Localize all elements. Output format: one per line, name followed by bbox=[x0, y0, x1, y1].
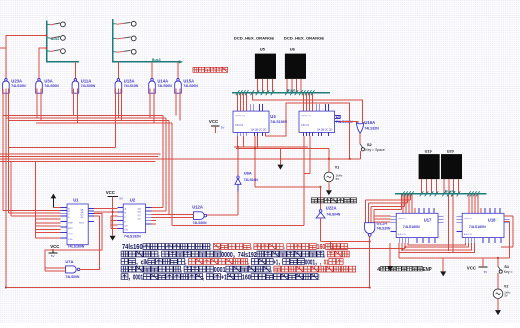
svg-text:U14A: U14A bbox=[157, 78, 168, 83]
wire ENP feed from U22A line to cascade row bbox=[331, 242, 406, 249]
svg-text:RCO: RCO bbox=[79, 222, 84, 224]
svg-text:74LS10N: 74LS10N bbox=[11, 84, 26, 88]
wire U16A output to S2 bbox=[359, 134, 361, 144]
svg-text:VCC: VCC bbox=[50, 244, 60, 249]
svg-text:74LS192N: 74LS192N bbox=[270, 120, 287, 124]
NAND gate U13A (74LS10N) bbox=[115, 78, 139, 93]
svg-text:U11A: U11A bbox=[81, 78, 91, 83]
svg-text:¬¬¬¬ ¬: ¬¬¬¬ ¬ bbox=[464, 217, 472, 220]
wire U12A input stubs bbox=[188, 214, 194, 217]
wire U17 left pin rows bbox=[374, 216, 390, 222]
NAND gate U12A (74LS00N) bbox=[192, 204, 207, 225]
svg-text:U3A: U3A bbox=[44, 78, 52, 83]
wire clock line to V1/S2 bbox=[0, 158, 361, 160]
wire U11A inputs bbox=[73, 93, 77, 123]
svg-text:¬¬¬¬ ¬¬: ¬¬¬¬ ¬¬ bbox=[235, 114, 245, 117]
wire U13A inputs bbox=[115, 93, 121, 120]
switch bank J1 bus bar bbox=[47, 20, 79, 62]
svg-text:5V: 5V bbox=[484, 270, 488, 274]
NAND gate U21A (74LS20N) bbox=[365, 220, 391, 236]
svg-text:74LS160N: 74LS160N bbox=[68, 245, 85, 249]
svg-text:74LS00N: 74LS00N bbox=[44, 84, 59, 88]
bus Bus1 bbox=[232, 88, 330, 95]
svg-text:A B C D: A B C D bbox=[464, 233, 472, 236]
svg-text:74LS04N: 74LS04N bbox=[244, 178, 259, 182]
svg-text:Bus3: Bus3 bbox=[152, 58, 161, 62]
svg-text:U1: U1 bbox=[73, 198, 79, 203]
ground below V1 bbox=[326, 182, 332, 196]
counter U1 (74LS160N) bbox=[60, 198, 93, 249]
svg-text:U2: U2 bbox=[130, 198, 136, 203]
svg-text:，: ， bbox=[248, 259, 251, 266]
svg-text:U6: U6 bbox=[290, 47, 296, 52]
wire between-chip verticals bbox=[449, 195, 453, 253]
wire U13A output to bus J2 bbox=[117, 62, 119, 78]
wire U23A output to bus J1 bbox=[6, 36, 47, 79]
svg-text:74LS00N: 74LS00N bbox=[193, 221, 208, 225]
NAND gate U11A (74LS00N) bbox=[72, 78, 96, 93]
svg-text:U4: U4 bbox=[336, 114, 342, 119]
ground below U17 bbox=[387, 243, 393, 271]
svg-text:A B C D: A B C D bbox=[301, 124, 310, 127]
svg-text:QB: QB bbox=[138, 212, 142, 214]
svg-text:，: ， bbox=[185, 259, 188, 266]
wire U12A output to U8A input bbox=[207, 192, 238, 215]
display U6 (DCD_HEX_ORANGE) bbox=[284, 35, 325, 92]
svg-text:S2: S2 bbox=[367, 142, 373, 147]
display U19 (DCD_HEX) bbox=[419, 150, 440, 193]
wire U3 column to U22A output line bbox=[255, 187, 321, 210]
svg-text:U15A: U15A bbox=[183, 78, 194, 83]
svg-text:V1: V1 bbox=[335, 165, 340, 169]
wire stub left edge bbox=[0, 47, 6, 49]
svg-text:，: ， bbox=[158, 252, 161, 259]
svg-text:+1，: +1， bbox=[274, 259, 283, 266]
clock source V1 (1kHz 5V) bbox=[324, 148, 343, 181]
svg-text:5V: 5V bbox=[119, 196, 123, 200]
svg-text:160: 160 bbox=[317, 244, 326, 251]
bus Bus4 bbox=[395, 190, 487, 197]
svg-text:DN: DN bbox=[125, 229, 129, 231]
wire ENT line bottom bbox=[399, 221, 509, 257]
wire bundle B (left interconnect) bbox=[0, 154, 161, 162]
counter U3 (74LS192N) bbox=[233, 104, 288, 136]
wire vertical bundle to U2 right pins bbox=[163, 115, 172, 217]
svg-text:U18: U18 bbox=[488, 218, 496, 223]
ground mid (below bundle C) bbox=[277, 148, 283, 169]
wire bundle A (gate inputs interconnect) bbox=[3, 115, 172, 123]
counter U4 (74LS192N) bbox=[299, 104, 353, 136]
switch J2-3 bbox=[113, 49, 136, 54]
svg-text:74LS20N: 74LS20N bbox=[377, 227, 392, 231]
svg-text:QD: QD bbox=[80, 217, 84, 219]
svg-text:QD: QD bbox=[138, 218, 142, 220]
svg-text:ENP: ENP bbox=[423, 267, 432, 273]
NAND gate U3A (74LS00N) bbox=[36, 78, 60, 93]
wire U1 left pin rows bbox=[3, 208, 60, 238]
power VCC (bottom right) bbox=[467, 258, 488, 274]
svg-text:S1: S1 bbox=[504, 264, 510, 269]
wire Bus1 to U16A input bbox=[252, 94, 362, 124]
NAND gate U15A (74LS00N) bbox=[175, 78, 199, 93]
svg-text:5V: 5V bbox=[336, 177, 340, 181]
switch S1 (Key =) bbox=[498, 258, 513, 274]
svg-text:~LO: ~LO bbox=[68, 233, 72, 235]
svg-text:V2: V2 bbox=[504, 285, 509, 289]
svg-text:，0001: ，0001 bbox=[128, 274, 143, 281]
svg-text:74LS10N: 74LS10N bbox=[124, 84, 139, 88]
svg-text:74LS160N: 74LS160N bbox=[403, 225, 420, 229]
wire U22A input down to U21A output line bbox=[321, 218, 370, 242]
label ENP control (black) bbox=[377, 266, 432, 272]
svg-text:¬¬¬¬ ¬¬: ¬¬¬¬ ¬¬ bbox=[301, 114, 311, 117]
svg-text:A B C D: A B C D bbox=[235, 124, 244, 127]
svg-text:CLK: CLK bbox=[68, 239, 73, 241]
svg-text:ENT: ENT bbox=[68, 228, 73, 230]
svg-text:5V: 5V bbox=[504, 294, 507, 298]
svg-text:VCC: VCC bbox=[106, 190, 116, 195]
svg-text:QA: QA bbox=[138, 207, 142, 210]
paragraph description line 3 bbox=[121, 259, 343, 267]
svg-text:74LS00N: 74LS00N bbox=[65, 275, 80, 279]
svg-text:，: ， bbox=[271, 267, 274, 274]
svg-text:，: ， bbox=[203, 274, 206, 281]
wire U3A inputs bbox=[37, 93, 41, 120]
svg-text:，: ， bbox=[324, 252, 327, 259]
svg-text:U13A: U13A bbox=[124, 78, 135, 83]
switch bank J2 bus bar bbox=[113, 19, 183, 63]
clock source V2 (1kHz 5V) bbox=[493, 273, 511, 299]
svg-text:VCC: VCC bbox=[467, 265, 477, 270]
NAND gate U14A (74LS00N) bbox=[149, 78, 173, 93]
wire long feedback bottom bbox=[6, 287, 370, 289]
wire U17-U18 cascade rows bbox=[399, 243, 474, 253]
svg-text:U5: U5 bbox=[260, 47, 266, 52]
display U20 (DCD_HEX) bbox=[441, 150, 462, 193]
wire Bus1 to U4 top pins bbox=[304, 94, 313, 112]
svg-text:160: 160 bbox=[242, 274, 251, 281]
wire U4 right pins to U16A bbox=[340, 122, 358, 124]
inverter U8A (74LS04N) bbox=[235, 147, 258, 192]
counter U2 (74LS192N) bbox=[117, 198, 151, 239]
wire U14A inputs bbox=[150, 93, 154, 123]
svg-text:A B C D: A B C D bbox=[398, 233, 406, 236]
svg-text:U8A: U8A bbox=[244, 171, 252, 176]
label control async clear (black) bbox=[311, 198, 356, 203]
wire bundle C (under U3/U4) bbox=[234, 147, 329, 149]
svg-text:ENP: ENP bbox=[68, 222, 73, 224]
svg-text:QC: QC bbox=[138, 215, 142, 217]
switch J1-1 bbox=[47, 22, 66, 27]
svg-text:UP: UP bbox=[125, 226, 129, 228]
wire U21A output to feedback line bbox=[369, 236, 371, 287]
svg-text:U19: U19 bbox=[425, 150, 432, 154]
svg-text:74LS04N: 74LS04N bbox=[326, 212, 341, 216]
wire U23A inputs bbox=[3, 93, 8, 213]
svg-text:74LS00N: 74LS00N bbox=[183, 84, 198, 88]
wire U7A output bbox=[80, 216, 100, 269]
wire row to U13A input bbox=[8, 115, 115, 147]
svg-text:¬¬¬¬ ¬: ¬¬¬¬ ¬ bbox=[398, 217, 406, 220]
svg-text:5V: 5V bbox=[51, 254, 55, 258]
counter U18 (74LS160N) bbox=[457, 208, 510, 243]
svg-text:U7A: U7A bbox=[65, 259, 73, 264]
svg-text:VCC: VCC bbox=[209, 119, 219, 124]
svg-text:！: ！ bbox=[318, 273, 321, 281]
svg-text:0001，: 0001， bbox=[305, 259, 320, 266]
svg-text:Key = Space: Key = Space bbox=[365, 148, 384, 152]
svg-text:U21A: U21A bbox=[377, 220, 388, 225]
svg-text:U20: U20 bbox=[447, 150, 454, 154]
label two-chip preset (red) bbox=[193, 67, 228, 72]
svg-text:74LS160N: 74LS160N bbox=[469, 225, 486, 229]
svg-text:0000，74ls192: 0000，74ls192 bbox=[221, 252, 257, 259]
svg-text:，: ， bbox=[181, 267, 184, 274]
svg-text:，: ， bbox=[284, 244, 287, 251]
wire feedback lines to bus Bus4 bbox=[366, 200, 411, 210]
wire column P1 to left bundle bbox=[172, 217, 304, 225]
svg-text:0001: 0001 bbox=[214, 267, 226, 274]
wire Bus1 to U3 top pins bbox=[238, 94, 247, 112]
svg-text:74ls160: 74ls160 bbox=[122, 244, 143, 251]
switch S2 (Key = Space) bbox=[360, 142, 385, 159]
svg-text:，clk: ，clk bbox=[136, 259, 148, 266]
svg-text:74LS32N: 74LS32N bbox=[364, 126, 379, 130]
svg-text:QA QB QC QD: QA QB QC QD bbox=[251, 129, 267, 132]
svg-text:U17: U17 bbox=[424, 218, 432, 223]
wire U15A inputs bbox=[176, 93, 180, 120]
svg-text:74LS192N: 74LS192N bbox=[124, 235, 141, 239]
wire U7A inputs bbox=[45, 214, 102, 271]
svg-text:：: ： bbox=[210, 244, 213, 251]
power VCC (above U2) bbox=[106, 190, 123, 200]
NAND gate U23A (74LS10N) bbox=[3, 78, 27, 93]
switch J2-1 bbox=[113, 21, 136, 26]
wire U11A output to bus J1 bbox=[74, 62, 76, 78]
inverter U22A (74LS04N) bbox=[316, 205, 341, 218]
ground arrow (left of U1) bbox=[51, 194, 57, 208]
svg-text:U12A: U12A bbox=[192, 204, 203, 209]
switch J1-3 bbox=[47, 49, 66, 54]
svg-text:DCD_HEX_ORANGE: DCD_HEX_ORANGE bbox=[284, 35, 325, 40]
switch J2-2 bbox=[113, 36, 136, 41]
OR gate U16A (74LS32N) bbox=[356, 120, 379, 133]
switch J1-2 bbox=[47, 36, 66, 41]
wire U3A output to bus J1 bbox=[39, 48, 47, 78]
svg-text:5V: 5V bbox=[221, 126, 225, 130]
wire U23A input feedback (long left vertical) bbox=[5, 93, 7, 287]
wire U2 right pin rows bbox=[152, 208, 188, 225]
wire U15A output to bus J2 bbox=[177, 62, 179, 78]
svg-text:74LS00N: 74LS00N bbox=[157, 84, 172, 88]
wire right edge hooks bbox=[501, 216, 513, 247]
wire U14A output to bus J2 bbox=[151, 62, 153, 78]
power VCC (below U1) bbox=[49, 244, 61, 258]
power VCC (near U3) bbox=[209, 119, 224, 133]
wire Bus4 to U18 top pins bbox=[469, 195, 481, 214]
wire U1 to U2 rows bbox=[94, 209, 118, 229]
svg-text:，01: ，01 bbox=[320, 259, 329, 266]
wire U4 output columns down bbox=[304, 136, 310, 225]
svg-text:U23A: U23A bbox=[11, 78, 22, 83]
wire VCC stem down + ground arrow bbox=[110, 196, 116, 240]
paragraph description line 2 bbox=[121, 251, 349, 259]
counter U17 (74LS160N) bbox=[391, 208, 444, 243]
display U5 (DCD_HEX_ORANGE) bbox=[234, 35, 276, 92]
wire Bus4 to U17 top pins bbox=[403, 195, 415, 214]
svg-text:Bus2: Bus2 bbox=[51, 37, 60, 41]
wire U3 bottom pins to bundle C bbox=[238, 136, 258, 187]
wire junction dots bbox=[5, 35, 499, 289]
svg-text:DCD_HEX_ORANGE: DCD_HEX_ORANGE bbox=[234, 35, 275, 40]
wire left verticals to U1 bbox=[11, 161, 35, 238]
paragraph description line 1 bbox=[122, 244, 348, 252]
svg-text:74LS00N: 74LS00N bbox=[81, 84, 96, 88]
wire U3 output loop to clock line bbox=[266, 103, 350, 159]
ground mid-bottom (near U18) bbox=[440, 258, 446, 277]
paragraph description line 4 bbox=[121, 266, 356, 274]
ground below V2 bbox=[495, 299, 501, 316]
svg-text:+1: +1 bbox=[221, 274, 227, 281]
svg-text:Key =: Key = bbox=[504, 270, 513, 274]
paragraph description line 5 bbox=[121, 273, 321, 281]
svg-text:U3: U3 bbox=[270, 114, 276, 119]
NAND gate U7A (74LS00N) bbox=[65, 259, 80, 279]
svg-text:QA QB QC QD: QA QB QC QD bbox=[317, 129, 333, 132]
wire U21A input columns bbox=[366, 200, 374, 223]
wire bus entries Bus4 left bbox=[402, 195, 411, 210]
svg-text:U16A: U16A bbox=[364, 120, 375, 125]
svg-text:U22A: U22A bbox=[326, 205, 337, 210]
svg-text:，: ， bbox=[251, 244, 254, 251]
svg-text:4: 4 bbox=[377, 267, 380, 273]
